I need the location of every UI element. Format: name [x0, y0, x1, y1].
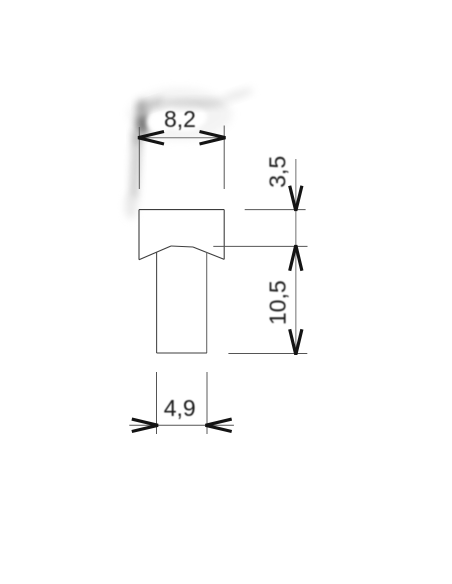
dim 4,9: right extension line: [206, 372, 208, 434]
white bowl left of text: [147, 111, 171, 133]
dim 4,9: dimension line: [129, 424, 234, 426]
dim 10,5: bottom tick line: [228, 353, 307, 355]
white halo around 8,2 text: [161, 103, 207, 131]
dim 4,9: right-pointing arrowhead at left extension: [132, 419, 158, 431]
svg-text:8,2: 8,2: [164, 106, 196, 132]
smudge: shading upper-left of text: [137, 100, 147, 116]
dim 8,2: left arrowhead: [138, 132, 164, 145]
svg-text:4,9: 4,9: [164, 395, 196, 421]
smudge: diagonal bridge left of text: [140, 96, 165, 111]
dim 4,9: left-pointing arrowhead at right extension: [206, 419, 232, 431]
dim 4,9: left extension line: [156, 372, 158, 434]
dim 8,2: right extension line: [223, 126, 225, 190]
part outline: notch right diagonal: [193, 247, 224, 259]
dim 10,5: down arrowhead at bottom tick: [290, 329, 302, 354]
part outline: stem bottom edge: [157, 352, 207, 354]
smudge: streak lower part: [130, 146, 141, 200]
smudge: faint tail below streak: [125, 193, 137, 219]
part outline: notch middle segment: [171, 246, 193, 247]
part outline: cap top edge: [139, 209, 224, 211]
vertical dimension line (3,5 and 10,5): [295, 159, 297, 354]
svg-text:3,5: 3,5: [264, 156, 290, 188]
part outline: stem left edge: [156, 252, 158, 353]
smudge: vertical gray streak along left extension line: [132, 130, 142, 150]
dim 8,2: left extension line: [138, 127, 140, 189]
part outline: cap right edge: [223, 210, 225, 260]
dim 3,5: notch leader tick line: [213, 245, 307, 247]
svg-text:10,5: 10,5: [265, 280, 291, 325]
part outline: cap left edge: [138, 210, 140, 260]
smudge: gray crescent shading left of 8,2 text: [136, 112, 149, 136]
dim 3,5: down arrowhead at top tick: [290, 186, 302, 211]
part outline: notch left diagonal: [139, 246, 171, 260]
smudge: faint diagonal band top right of text: [220, 86, 255, 104]
dim 3,5: top tick line: [245, 209, 306, 211]
dim 8,2: right arrowhead: [200, 132, 226, 145]
part outline: stem right edge: [206, 252, 208, 353]
smudge: faint gray veil around dimension text area: [128, 88, 232, 140]
dim 8,2: dimension line: [139, 137, 224, 139]
dim 3,5 / 10,5: up arrowhead at notch tick: [290, 245, 302, 271]
smudge: faint band above text: [161, 100, 225, 108]
